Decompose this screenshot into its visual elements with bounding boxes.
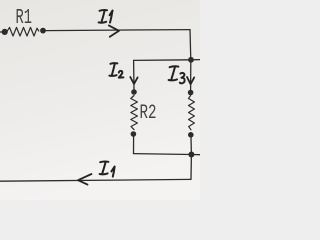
wire: bottom return [0, 179, 191, 181]
resistor R1 zigzag [7, 27, 39, 36]
label I3 (handwritten) [169, 66, 185, 83]
wire: right vertical top segment [189, 30, 192, 60]
svg-text:R1: R1 [16, 7, 33, 30]
wire: left branch down to R2 [133, 60, 135, 89]
junction dot: bottom of R2 [131, 131, 137, 137]
arrow I4 (bottom wire) [78, 174, 92, 185]
wire: right vertical bottom segment [190, 155, 192, 180]
wire: R1 to top-right corner [46, 30, 190, 31]
resistor R3 zigzag (right branch) [189, 96, 195, 130]
svg-text:R2: R2 [140, 102, 157, 125]
arrow I3 (right branch) [187, 77, 194, 84]
junction dot: right end of R1 [40, 28, 46, 34]
resistor R2 zigzag (left branch) [131, 96, 138, 130]
junction dot: left end of R1 [2, 29, 8, 35]
arrow I1 (current direction, top wire) [109, 25, 119, 36]
label I1 (handwritten) [99, 10, 113, 23]
wire: left stub to R1 [0, 31, 5, 33]
junction dot: node B right [188, 152, 194, 158]
paper background [0, 0, 200, 200]
label I2 (handwritten) [109, 63, 123, 77]
junction dot: node A right [188, 57, 194, 63]
wire: below R3 to bottom node [190, 137, 192, 155]
arrow I2 (left branch) [130, 77, 137, 84]
junction dot: bottom of R3 [188, 132, 194, 138]
node line A (top of parallel branches) [134, 59, 200, 62]
junction dot: top of R3 [188, 90, 194, 96]
node line B (bottom of parallel branches) [134, 154, 201, 155]
junction dot: top of R2 [131, 89, 137, 95]
wire: below R2 to bottom node [133, 137, 135, 154]
label I4 (handwritten) [100, 161, 115, 176]
wire: right branch down to R3 [190, 60, 192, 90]
